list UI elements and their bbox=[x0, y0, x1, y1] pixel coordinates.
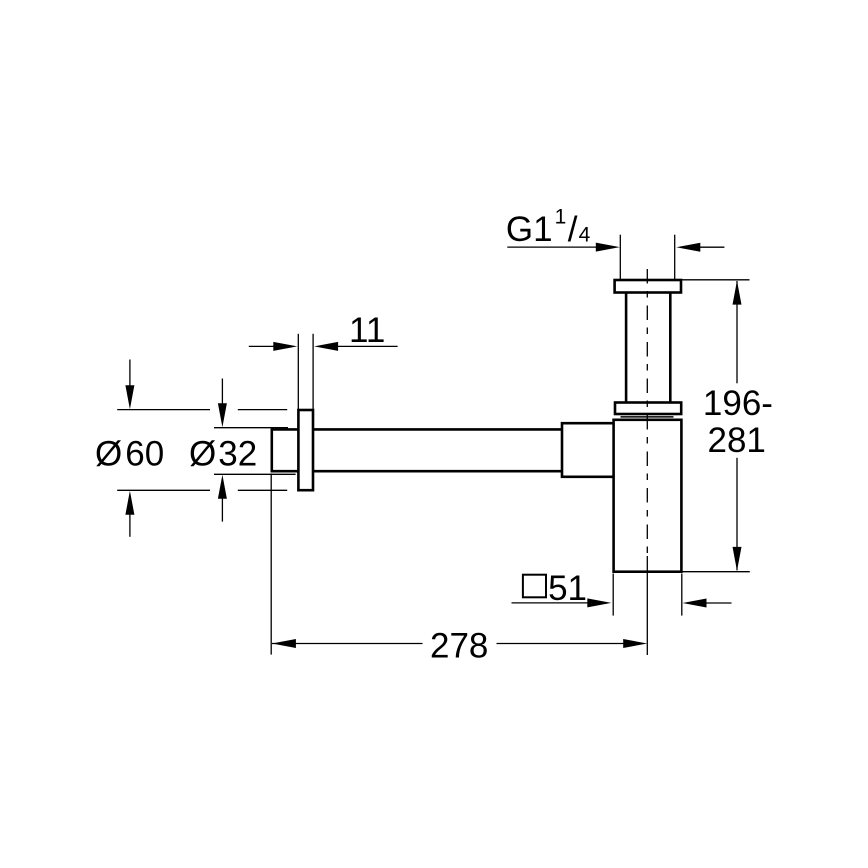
label 196-281 bbox=[703, 384, 773, 460]
dimension G1 1/4 shaft right bbox=[700, 246, 724, 248]
dimension O32 extension top bbox=[214, 427, 288, 429]
dimension G1 1/4 leader shaft left bbox=[507, 246, 596, 248]
svg-text:281: 281 bbox=[708, 421, 766, 460]
dimension 196-281 reference line top bbox=[682, 279, 750, 281]
dimension G1 1/4 extension line right bbox=[674, 235, 676, 280]
riser pipe (vertical tube) bbox=[626, 293, 670, 404]
wall flange (rosette) bbox=[298, 410, 313, 490]
svg-text:278: 278 bbox=[430, 626, 488, 665]
dimension square51 extension left bbox=[612, 574, 614, 616]
dimension square51 arrowhead right bbox=[683, 599, 707, 608]
dimension 278 line right segment bbox=[497, 643, 624, 645]
dimension 196-281 arrowhead up bbox=[733, 281, 742, 305]
trap body (cup) bbox=[614, 420, 682, 572]
dimension square51 leader shaft left bbox=[512, 602, 589, 604]
dimension G1 1/4 arrowhead left bbox=[596, 243, 620, 252]
dimension O60 arrow top bbox=[129, 360, 131, 387]
dimension 196-281 vertical line lower bbox=[736, 458, 738, 571]
label O60 bbox=[95, 435, 164, 474]
dimension 278 arrowhead left bbox=[272, 639, 296, 648]
dimension O32 extension bottom bbox=[214, 473, 296, 475]
dimension 11 shaft left bbox=[249, 345, 275, 347]
dimension 278 line left segment bbox=[272, 643, 423, 645]
dimension 11 arrowhead right bbox=[314, 342, 338, 351]
svg-text:196-: 196- bbox=[703, 384, 773, 423]
dimension O60 arrow bottom bbox=[129, 514, 131, 537]
svg-text:1: 1 bbox=[555, 205, 567, 228]
svg-text:G1: G1 bbox=[506, 210, 553, 249]
dimension 196-281 vertical line upper bbox=[736, 281, 738, 383]
dimension 11 shaft right bbox=[338, 345, 398, 347]
label O32 bbox=[189, 435, 257, 474]
dimension 196-281 reference line bottom bbox=[682, 571, 750, 573]
dimension O32 arrow top bbox=[221, 379, 223, 405]
centerline lower solid segment bbox=[646, 556, 648, 655]
dimension 11 extension line right bbox=[312, 334, 314, 409]
svg-text:51: 51 bbox=[548, 569, 587, 608]
label G1 1/4 bbox=[506, 205, 591, 249]
upper body flange nut bbox=[615, 403, 681, 415]
svg-text:4: 4 bbox=[579, 223, 591, 246]
gasket line under upper flange bbox=[621, 416, 674, 418]
square symbol bbox=[523, 575, 546, 598]
centerline (dash-dot) bbox=[646, 269, 648, 556]
inlet pipe (horizontal tube) bbox=[272, 428, 563, 472]
dimension O60 extension top bbox=[117, 409, 210, 411]
svg-text:11: 11 bbox=[349, 311, 385, 350]
svg-text:60: 60 bbox=[125, 435, 164, 474]
top flange nut bbox=[615, 280, 681, 293]
dimension square51 arrowhead left bbox=[587, 598, 611, 607]
dimension 196-281 arrowhead down bbox=[733, 547, 742, 571]
svg-text:32: 32 bbox=[218, 435, 257, 474]
dimension G1 1/4 arrowhead right bbox=[676, 243, 700, 252]
dimension 278 arrowhead right bbox=[623, 639, 647, 648]
dimension 11 extension line left bbox=[297, 334, 299, 409]
connector nut between pipe and trap body bbox=[562, 423, 614, 477]
svg-text:Ø: Ø bbox=[189, 435, 216, 474]
dimension G1 1/4 extension line left bbox=[619, 235, 621, 280]
dimension 278 extension line left bbox=[270, 474, 272, 655]
svg-text:/: / bbox=[568, 210, 578, 249]
dimension square51 extension right bbox=[681, 574, 683, 616]
dimension 11 arrowhead left bbox=[273, 342, 297, 351]
dimension O32 arrow bottom bbox=[221, 498, 223, 522]
dimension square51 shaft right bbox=[706, 602, 732, 604]
dimension O60 extension bottom bbox=[117, 489, 210, 491]
svg-text:Ø: Ø bbox=[95, 435, 122, 474]
